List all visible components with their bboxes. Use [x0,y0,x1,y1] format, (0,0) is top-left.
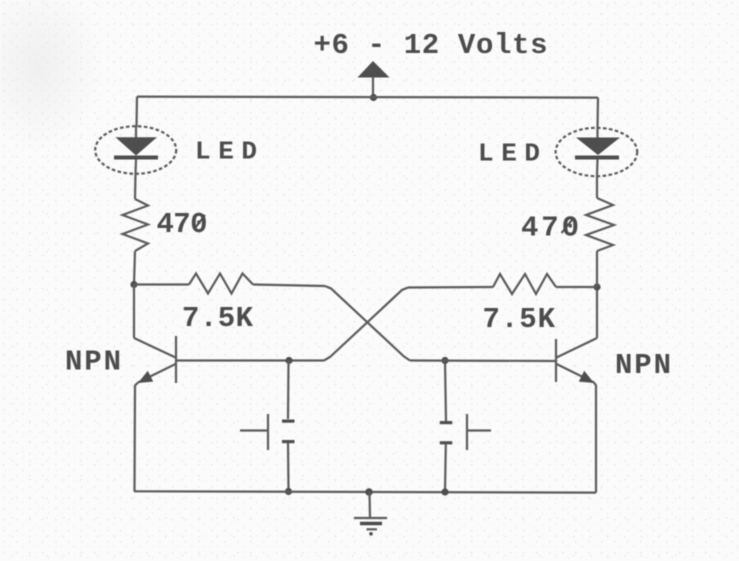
svg-text:LED: LED [195,137,257,167]
node D junction [441,357,448,364]
wire R1 to node A [134,251,135,285]
resistor R4 7.5K [493,274,556,294]
wire node E to R4 [556,286,597,288]
wire Q1 base line [177,359,325,361]
label 470 right [521,212,579,245]
svg-text:+6 - 12 Volts: +6 - 12 Volts [314,29,548,62]
wire left rail top [135,97,138,127]
wire LED D2 to R2 [596,176,598,198]
node VCC junction [370,94,377,101]
node ground junction [365,488,373,496]
transistor Q2 [556,338,597,383]
power arrow [358,61,390,97]
wire bottom rail [134,491,596,492]
svg-text:470: 470 [157,208,208,241]
ground [354,492,387,536]
capacitor C2 plate mark [467,414,491,450]
svg-text:7.5K: 7.5K [182,302,254,335]
wire R4 to diagonal [408,286,493,289]
wire cross diagonal left-to-right [325,286,410,361]
wire top rail [137,97,598,98]
svg-text:7.5K: 7.5K [483,303,556,336]
capacitor C1 [282,361,295,492]
capacitor C2 [440,361,453,492]
transistor Q1 [134,336,176,383]
capacitor C1 plate mark [240,414,268,450]
wire left rail to Q1 collector [133,285,135,339]
resistor R2 470 [586,198,614,251]
node B junction [285,357,292,364]
wire Q2 base line [410,359,555,362]
LED D1 [95,126,176,174]
svg-text:NPN: NPN [65,346,121,379]
resistor R1 470 [123,199,149,251]
LED D2 [556,128,638,176]
node C2 bottom junction [441,488,448,495]
wire cross diagonal right-to-left [324,288,408,361]
node A junction [130,281,137,288]
wire Q2 emitter down [594,383,596,493]
wire Q1 emitter down [135,383,139,492]
svg-text:470: 470 [521,212,579,245]
node C1 bottom junction [285,488,292,495]
wire R2 to node E [596,251,598,287]
svg-text:NPN: NPN [615,349,671,382]
wire LED D1 to R1 [134,174,137,199]
wire Q2 collector rail [596,287,598,338]
wire R3 to diagonal [253,285,325,287]
resistor R3 7.5K [189,274,253,294]
wire right rail top [596,98,599,128]
label 470 left [157,208,208,241]
node E junction [593,283,600,290]
wire node A to R3 [134,283,189,285]
svg-text:LED: LED [478,139,540,169]
